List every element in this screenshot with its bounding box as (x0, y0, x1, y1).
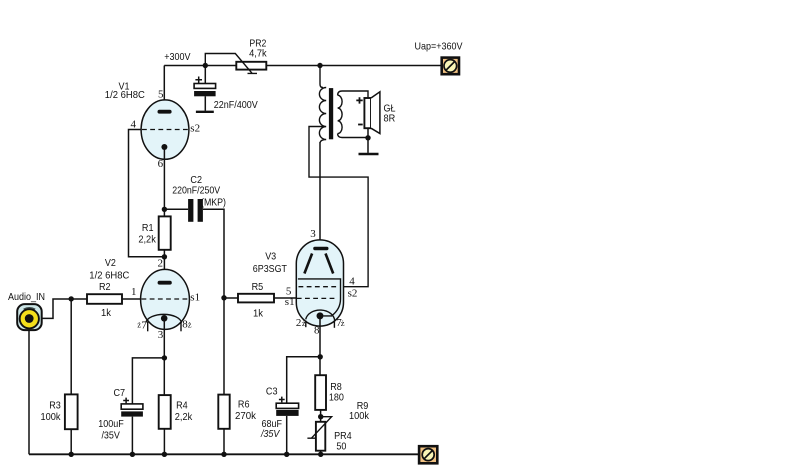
node rail C7 (130, 452, 135, 457)
svg-text:6P3SGT: 6P3SGT (253, 263, 288, 275)
svg-text:V2: V2 (105, 257, 116, 269)
svg-text:3: 3 (158, 329, 164, 341)
V2 heater tick pin7 (147, 322, 149, 332)
terminal Uap (442, 58, 459, 75)
tube V1 envelope (141, 100, 189, 159)
svg-text:(MKP): (MKP) (201, 197, 226, 209)
wire V3 cathode down (319, 316, 321, 375)
wire R5 left (224, 297, 238, 299)
wire secondary top to speaker (338, 91, 368, 98)
svg-text:R3: R3 (49, 400, 61, 412)
V2 cathode arc (146, 314, 182, 322)
ground under speaker (359, 153, 379, 155)
tube V3 envelope (296, 240, 343, 326)
V1 grid (dashed) (142, 129, 189, 131)
svg-text:4: 4 (349, 276, 355, 288)
wire R4 bottom (163, 429, 165, 455)
svg-text:4,7k: 4,7k (249, 48, 267, 60)
wire R2 right to V2 grid (122, 298, 141, 300)
polarity + of C3 (279, 397, 285, 403)
svg-text:270k: 270k (235, 410, 257, 422)
svg-text:8: 8 (314, 325, 320, 337)
svg-text:R1: R1 (142, 222, 154, 234)
svg-text:100uF: 100uF (98, 418, 124, 430)
svg-text:ż: ż (341, 318, 345, 328)
V3 heater tick pin2 (305, 321, 307, 328)
svg-text:R4: R4 (176, 400, 188, 412)
svg-text:220nF/250V: 220nF/250V (172, 185, 220, 197)
speaker GL driver (364, 98, 371, 128)
potentiometer PR2 body (236, 62, 266, 70)
resistor R4 (159, 395, 171, 429)
svg-text:Uap=+360V: Uap=+360V (415, 41, 463, 53)
node junction B+/22nF (203, 63, 208, 68)
node rail R3 (69, 452, 74, 457)
wire branch to C7 (132, 358, 164, 454)
svg-text:1k: 1k (253, 307, 264, 319)
potentiometer PR4 body (316, 422, 325, 451)
node V1 cathode / C2 / R1 (162, 207, 167, 212)
wire secondary bottom (338, 134, 368, 138)
node input junction (69, 296, 74, 301)
wire node down to R6 (223, 298, 225, 395)
V3 cathode arc (306, 310, 335, 321)
capacitor C2 wires (164, 209, 224, 297)
V2 heater tick pin8 (180, 322, 182, 332)
wire V2 cathode down to R4 (163, 318, 165, 395)
wire ground rail (29, 453, 419, 455)
wire R2 left to input node (71, 298, 87, 300)
transformer TR primary winding (319, 88, 326, 143)
V2 anode plate (158, 281, 172, 285)
transformer TR core (329, 88, 333, 139)
V3 control grid s1 (dashed) (297, 297, 338, 299)
svg-text:2,2k: 2,2k (175, 411, 193, 423)
svg-text:1: 1 (131, 286, 137, 298)
svg-text:8R: 8R (384, 113, 396, 125)
svg-text:ż: ż (302, 318, 306, 328)
potentiometer PR2 wiper (205, 54, 257, 74)
wire R1 bottom to V2 plate (163, 250, 165, 282)
terminal ground (419, 446, 437, 463)
svg-text:C3: C3 (266, 385, 278, 397)
V2 cathode dot (161, 315, 168, 322)
V2 grid (dashed) (142, 298, 190, 300)
V1 cathode dot (161, 144, 167, 150)
svg-text:s1: s1 (190, 292, 200, 304)
node V3 cathode / C3 branch (318, 354, 323, 359)
svg-text:100k: 100k (349, 410, 370, 422)
svg-text:2,2k: 2,2k (138, 233, 156, 245)
resistor R8 (315, 375, 326, 410)
svg-text:5: 5 (158, 88, 164, 100)
svg-text:+300V: +300V (164, 51, 190, 63)
V3 cathode dot (317, 312, 324, 319)
svg-text:22nF/400V: 22nF/400V (214, 99, 258, 111)
svg-text:R6: R6 (238, 399, 250, 411)
svg-text:R5: R5 (252, 281, 264, 293)
svg-text:V3: V3 (265, 251, 276, 263)
resistor R1 (159, 216, 171, 249)
svg-text:7: 7 (141, 319, 147, 331)
node rail C3 (284, 452, 289, 457)
capacitor C7 plates (121, 404, 143, 409)
resistor R2 (87, 294, 122, 304)
svg-text:1/2 6H8C: 1/2 6H8C (89, 269, 129, 281)
node rail R4 (162, 452, 167, 457)
wire input node to RCA (34, 299, 71, 318)
tube V2 envelope (141, 269, 190, 329)
svg-text:C7: C7 (114, 387, 126, 399)
polarity + of 22nF (195, 77, 202, 84)
wire branch to C3 (287, 357, 321, 455)
svg-text:2: 2 (158, 258, 164, 270)
capacitor C 22nF/400V lead (204, 66, 206, 111)
connector Audio_IN RCA (17, 304, 42, 330)
resistor R3 (65, 394, 78, 429)
V3 beam plate left (304, 254, 312, 274)
wire input node down to R3 (70, 299, 72, 394)
svg-text:50: 50 (336, 440, 346, 452)
svg-text:2: 2 (296, 317, 302, 329)
wire RCA ground down (28, 330, 30, 454)
node speaker minus junction (365, 135, 370, 140)
wire V1 plate lead (163, 66, 165, 112)
node R1 bottom / V2 plate (162, 254, 167, 259)
svg-text:100k: 100k (41, 411, 62, 423)
svg-text:3: 3 (310, 228, 316, 240)
potentiometer PR4 wiper (307, 417, 331, 439)
node junction B+/transformer (317, 63, 322, 68)
ground under 22nF (196, 111, 214, 113)
capacitor C3 plates (276, 403, 298, 408)
polarity - speaker (358, 124, 363, 126)
node rail R6 (221, 452, 226, 457)
wire speaker minus to ground (367, 128, 369, 153)
svg-text:180: 180 (329, 391, 344, 403)
node V2 cathode / C7 branch (162, 355, 167, 360)
polarity + of C7 (123, 398, 129, 404)
svg-text:Audio_IN: Audio_IN (8, 291, 45, 303)
svg-text:s2: s2 (348, 288, 358, 300)
V1 anode plate (158, 110, 172, 114)
wire V1 grid to V2 plate (129, 130, 165, 257)
svg-text:s2: s2 (190, 123, 200, 135)
wire R3 bottom (70, 429, 72, 454)
transformer TR secondary winding (338, 95, 343, 133)
wire B+ rail +300V (164, 65, 442, 67)
V3 heater tick pin7 (333, 321, 335, 328)
wire R5 right to V3 grid (274, 297, 296, 299)
wire primary bottom to V3 plate (319, 142, 321, 248)
capacitor C 22nF/400V plates (194, 84, 216, 89)
svg-text:s1: s1 (285, 296, 295, 308)
svg-text:ż: ż (188, 320, 192, 330)
node C2/R5/R6 junction (221, 295, 226, 300)
node R8/PR4 junction (318, 414, 323, 419)
wire UL tap (309, 127, 368, 287)
wire PR4 bottom (320, 451, 322, 455)
V3 beam shield line (298, 279, 341, 316)
V3 anode plate (313, 247, 328, 250)
polarity + speaker (356, 97, 362, 103)
svg-text:1/2 6H8C: 1/2 6H8C (105, 89, 145, 101)
V3 screen grid s2 (dashed) (299, 286, 340, 288)
wire R6 bottom (223, 429, 225, 455)
svg-text:/35V: /35V (101, 429, 120, 441)
wire R8 bottom to PR4 (320, 410, 322, 422)
capacitor C2 plates (188, 199, 193, 222)
V3 beam plate right (326, 254, 334, 274)
svg-text:6: 6 (158, 158, 164, 170)
resistor R5 (238, 294, 274, 303)
transformer TR primary lead from B+ (320, 66, 323, 88)
svg-text:/35V: /35V (260, 428, 280, 440)
svg-text:R2: R2 (99, 281, 111, 293)
node rail PR4 (318, 452, 323, 457)
speaker GL cone (371, 92, 380, 134)
resistor R6 (218, 395, 229, 429)
svg-text:1k: 1k (101, 307, 112, 319)
wire V1 cathode down (163, 147, 165, 216)
